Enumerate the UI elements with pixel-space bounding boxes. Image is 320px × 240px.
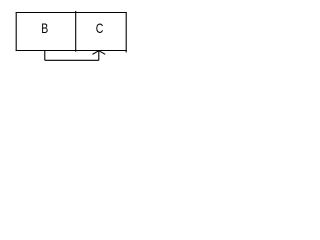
divider between B and C <box>75 11 77 52</box>
svg-text:C: C <box>96 20 104 36</box>
box left edge <box>15 12 17 51</box>
box bottom edge <box>16 50 127 52</box>
box right edge <box>125 12 127 52</box>
wire: feedback down segment from B <box>44 51 46 61</box>
background <box>0 0 143 81</box>
svg-text:B: B <box>41 20 48 36</box>
wire: feedback bottom horizontal segment <box>45 59 99 61</box>
wire: feedback up segment into C (arrow shaft) <box>98 51 100 60</box>
arrowhead into C <box>93 51 106 55</box>
box top edge <box>16 12 127 14</box>
